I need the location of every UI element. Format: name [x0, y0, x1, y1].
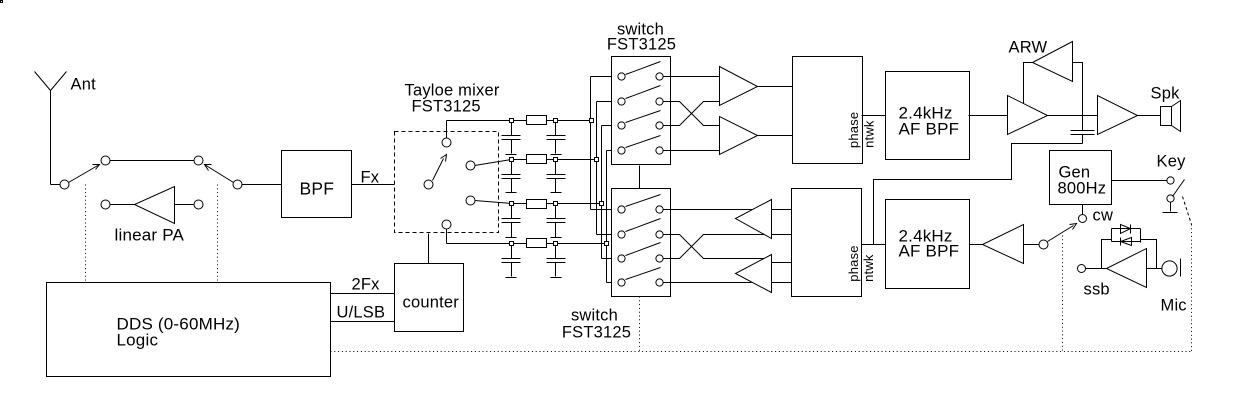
node row3 left junction [510, 202, 514, 206]
svg-text:800Hz: 800Hz [1058, 180, 1107, 198]
control line TR left (dashed) [85, 185, 87, 283]
node ssb input [1078, 265, 1086, 273]
wire bus 4 vertical [606, 151, 608, 283]
node Tayloe pole [424, 180, 433, 189]
resistor R4 [527, 239, 547, 248]
node RX row3 left [618, 122, 625, 129]
wire sample row 1 [447, 120, 591, 122]
wire throw2 to row2 node [475, 160, 512, 166]
wire A1 out [758, 86, 793, 88]
wire ssb to mic amp [1086, 268, 1107, 270]
op-amp A4 (TX Q) [736, 255, 772, 293]
wire antenna to TR switch [51, 184, 61, 186]
svg-text:Fx: Fx [361, 169, 380, 187]
node row2 right junction [554, 158, 558, 162]
wire bus 3 stub to TX switch [602, 258, 618, 260]
svg-text:ARW: ARW [1009, 39, 1048, 57]
wire 2Fx [331, 293, 395, 295]
wire Gen to Key [1112, 180, 1167, 182]
node TX row1 right [656, 206, 663, 213]
wire AF amp out [1048, 115, 1098, 117]
capacitor C2a [502, 160, 521, 193]
wire TR switch to BPF [242, 184, 282, 186]
node cw-ssb pole [1039, 240, 1048, 249]
filter TX 2.4kHz AF BPF box [886, 200, 970, 289]
node bus 2 junction [595, 158, 599, 162]
capacitor C3a [502, 204, 521, 238]
wire throw4 down to row4 [446, 229, 448, 244]
svg-text:BPF: BPF [300, 179, 335, 199]
control line mode (dotted) [1062, 236, 1064, 352]
op-amp A3 (TX I) [736, 200, 772, 239]
control line Key vertical (dotted) [1191, 225, 1193, 352]
wire PA input [175, 204, 195, 206]
wire bus 2 stub to RX switch [597, 101, 618, 103]
node TX row1 left [618, 206, 625, 213]
control line Key (dashed) [1183, 197, 1192, 225]
ground C1b [551, 154, 562, 156]
svg-text:U/LSB: U/LSB [337, 304, 386, 322]
wire TR top link [110, 160, 195, 162]
wire throw1 up to row1 [446, 121, 448, 139]
node RX row4 right [656, 147, 663, 154]
wire TX phase to AF BPF [861, 244, 886, 246]
node RX row2 right [656, 98, 663, 105]
wire RX row4 to amp A2 [664, 150, 720, 152]
wire mic feedback down [1141, 240, 1157, 269]
corner mark [1, 1, 3, 3]
microphone Mic [1162, 261, 1177, 276]
svg-text:Spk: Spk [1151, 85, 1181, 103]
Tayloe rotor blade with arrow [433, 159, 444, 181]
resistor R2 [527, 155, 547, 164]
node row3 right junction [554, 202, 558, 206]
switch TX row2 blade [626, 219, 661, 232]
svg-text:cw: cw [1093, 207, 1114, 225]
ground C1a [506, 154, 517, 156]
ground C3b [551, 237, 562, 239]
switch U2 RX bank box [612, 57, 671, 165]
wire PA output [110, 204, 135, 206]
node Tayloe throw 2 [466, 161, 475, 170]
capacitor AGC [1071, 131, 1095, 144]
capacitor C3b [547, 204, 566, 238]
ground C2a [506, 192, 517, 194]
wire TX row4 to amp A4 [664, 282, 752, 284]
wire bus 1 stub to RX switch [591, 76, 618, 78]
wire sample row 4 [447, 243, 607, 245]
node row2 left junction [510, 158, 514, 162]
wire bus 2 stub to TX switch [597, 234, 618, 236]
ground C4b [551, 277, 562, 279]
node PA input contact [194, 200, 203, 209]
wire RX BPF to AF amp [969, 115, 1008, 117]
wire A3 in b [772, 234, 792, 236]
cw-ssb blade with arrow [1048, 226, 1074, 242]
op-amp A1 (RX I) [720, 67, 758, 106]
svg-text:phase: phase [846, 112, 861, 148]
wire sample row 3 [512, 203, 602, 205]
node bus 3 junction [600, 202, 604, 206]
filter RX 2.4kHz AF BPF box [886, 72, 970, 160]
wire bus 2 vertical [596, 102, 598, 235]
Tayloe mixer U1 dashed box [395, 132, 499, 233]
capacitor C1b [547, 121, 566, 154]
switch TX row3 blade [626, 243, 661, 256]
wire bus 4 stub to RX switch [607, 150, 618, 152]
control line TR right (dashed) [217, 185, 219, 283]
op-amp ARW (AGC) [1033, 42, 1073, 82]
node row4 left junction [510, 242, 514, 246]
speaker Spk [1161, 107, 1172, 126]
svg-text:Mic: Mic [1161, 297, 1187, 315]
wire ARW out to AF amp [1024, 63, 1033, 104]
node TX row4 right [656, 279, 663, 286]
wire bus 3 stub to RX switch [602, 125, 618, 127]
filter BPF [282, 151, 352, 218]
wire bus 1 stub to TX switch [591, 209, 618, 211]
wire RX row1 to amp A1 [664, 76, 720, 78]
node RX row2 left [618, 98, 625, 105]
wire TX BPF to mic amp [970, 244, 983, 246]
svg-text:ntwk: ntwk [861, 120, 876, 148]
wire between banks [639, 166, 641, 189]
diode D2 [1121, 238, 1132, 246]
svg-text:AF BPF: AF BPF [899, 120, 960, 139]
control bus bottom (dotted) [331, 351, 1192, 353]
block counter [395, 264, 464, 332]
ground Key [1163, 203, 1178, 213]
svg-text:AF BPF: AF BPF [899, 242, 960, 261]
node TX row3 left [618, 255, 625, 262]
wire TX row3 crossover [664, 235, 765, 259]
switch TX row1 blade [626, 195, 661, 207]
capacitor C4b [547, 244, 566, 277]
wire Gen to cw contact [1082, 205, 1084, 215]
Key blade [1173, 180, 1185, 197]
node TX row2 right [656, 231, 663, 238]
capacitor C4a [502, 244, 521, 277]
ground C4a [506, 277, 517, 279]
node Tayloe throw 1 [442, 138, 451, 147]
node TX row2 left [618, 231, 625, 238]
node RX row1 right [656, 73, 663, 80]
op-amp AF main [1008, 96, 1048, 135]
node TX row4 left [618, 279, 625, 286]
svg-text:FST3125: FST3125 [412, 98, 481, 116]
node Tayloe throw 4 [442, 220, 451, 229]
svg-text:ntwk: ntwk [861, 254, 876, 282]
svg-text:FST3125: FST3125 [562, 324, 631, 342]
wire A4 in a [772, 262, 792, 264]
svg-text:counter: counter [403, 294, 460, 312]
switch U3 TX bank box [612, 189, 671, 297]
svg-text:switch: switch [571, 307, 618, 325]
svg-text:FST3125: FST3125 [607, 36, 676, 54]
wire sidetone feed [874, 144, 1083, 245]
wire throw3 to row3 node [475, 201, 512, 204]
wire U/LSB [331, 321, 395, 323]
node TX row3 right [656, 255, 663, 262]
block RX phase network [793, 57, 863, 164]
op-amp mic preamp [1107, 249, 1147, 288]
wire TX row2 crossover [664, 235, 765, 259]
node TR upper-right contact [194, 156, 203, 165]
node row1 left junction [510, 119, 514, 123]
wire A4 in b [772, 282, 792, 284]
svg-text:Logic: Logic [117, 331, 159, 350]
switch RX row4 blade [626, 136, 661, 148]
wire to speaker [1138, 115, 1161, 117]
svg-text:Key: Key [1157, 153, 1187, 171]
switch RX row3 blade [626, 111, 661, 123]
wire bus 1 vertical [590, 77, 592, 210]
control line TX bank (dotted) [639, 297, 641, 352]
block Gen 800Hz [1050, 151, 1112, 205]
capacitor C1a [502, 121, 521, 154]
wire ARW input [1073, 63, 1083, 131]
diode clipper rails [1112, 229, 1141, 243]
svg-text:2Fx: 2Fx [352, 276, 381, 294]
node RX row4 left [618, 147, 625, 154]
amplifier linear PA [135, 187, 175, 224]
wire mic amp out [1147, 268, 1163, 270]
svg-text:Ant: Ant [71, 76, 97, 94]
wire BPF to Tayloe mixer (Fx) [352, 184, 425, 186]
wire mic feedback up [1102, 240, 1112, 269]
wire RX row2 crossover [664, 102, 720, 126]
wire A3 in a [772, 209, 792, 211]
diode D1 [1121, 225, 1131, 234]
block TX phase network [792, 189, 862, 297]
node PA output contact [101, 200, 110, 209]
ground C2b [551, 192, 562, 194]
node TR upper-left contact [101, 156, 110, 165]
op-amp TX AF amp [983, 225, 1024, 264]
antenna [35, 72, 67, 185]
node RX row1 left [618, 73, 625, 80]
node Key lower [1167, 195, 1174, 202]
wire mic amp input [1024, 244, 1039, 246]
wire RX phase to AF BPF [862, 115, 886, 117]
node bus 1 junction [590, 119, 594, 123]
resistor R3 [527, 200, 547, 209]
node row4 right junction [554, 242, 558, 246]
wire TX row1 to amp A3 [664, 209, 753, 211]
wire bus 3 vertical [601, 126, 603, 259]
node Key upper [1167, 177, 1174, 184]
TR switch blade left with arrow [69, 165, 100, 183]
node RX row3 right [656, 122, 663, 129]
switch RX row1 blade [626, 62, 661, 75]
switch TX row4 blade [626, 268, 661, 280]
svg-text:phase: phase [846, 245, 861, 281]
node row1 right junction [554, 119, 558, 123]
node bus 4 junction [605, 242, 609, 246]
wire A2 out [758, 135, 793, 137]
wire mixer to counter [428, 234, 430, 264]
TR switch blade right with arrow [205, 165, 234, 183]
op-amp A2 (RX Q) [720, 117, 758, 155]
wire RX row3 crossover [664, 102, 720, 126]
svg-text:ssb: ssb [1084, 281, 1110, 299]
svg-text:linear PA: linear PA [115, 226, 185, 245]
node Tayloe throw 3 [466, 196, 475, 205]
ground C3a [506, 237, 517, 239]
block DDS logic [47, 283, 331, 377]
node cw contact [1079, 215, 1087, 223]
resistor R1 [527, 116, 547, 125]
node TR switch pole right [233, 180, 242, 189]
wire bus 4 stub to TX switch [607, 282, 618, 284]
switch RX row2 blade [626, 86, 661, 99]
op-amp AF output stage [1098, 96, 1138, 135]
wire sample row 2 [512, 159, 597, 161]
capacitor C2b [547, 160, 566, 193]
node TR switch pole left [60, 180, 69, 189]
